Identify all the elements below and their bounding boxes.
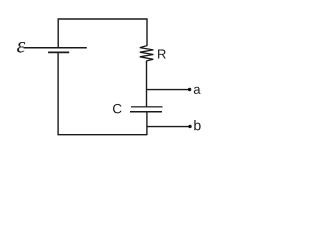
wire stub to node b <box>147 126 190 128</box>
battery long plate (positive terminal) with lead to EMF label <box>24 47 87 49</box>
wire top loop: left vertical up, top wire, right vertical down to resistor <box>58 19 147 48</box>
node b junction dot <box>188 125 191 128</box>
EMF source label ℰ <box>17 42 25 53</box>
capacitor C top plate <box>131 106 163 108</box>
wire: left lower vertical and bottom wire <box>58 52 147 134</box>
node a junction dot <box>188 88 191 91</box>
resistor label R <box>158 50 166 59</box>
wire stub to node a <box>147 89 190 91</box>
wire: right lower vertical (bottom wire up to capacitor bottom plate) <box>146 112 148 136</box>
battery short plate (negative terminal) <box>48 51 69 53</box>
node label a <box>194 87 201 94</box>
capacitor C bottom plate <box>130 111 162 113</box>
node label b <box>194 120 200 130</box>
resistor R zigzag <box>140 46 154 61</box>
wire: capacitor top plate up to resistor bottom <box>146 61 148 107</box>
capacitor label C <box>113 104 122 114</box>
